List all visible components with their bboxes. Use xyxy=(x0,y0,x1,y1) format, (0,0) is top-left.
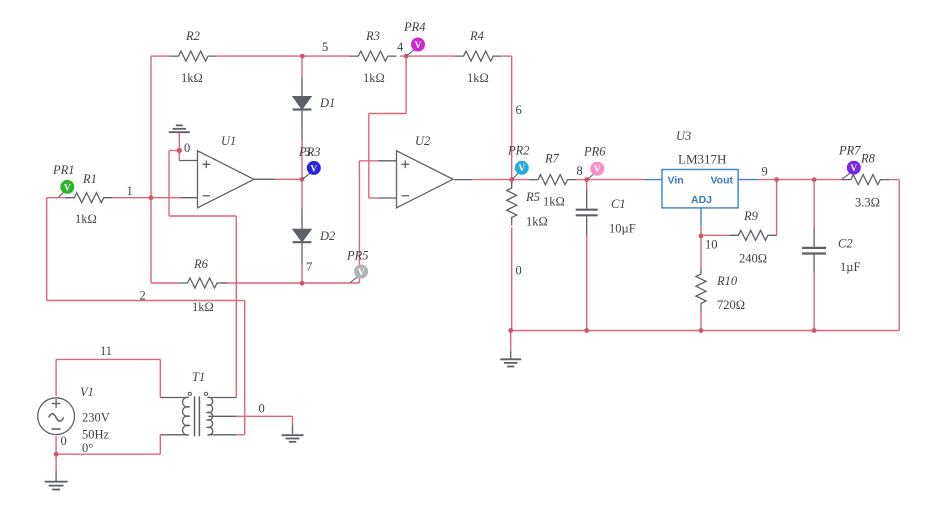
svg-text:D2: D2 xyxy=(319,229,335,243)
svg-text:PR7: PR7 xyxy=(838,144,861,158)
wire to R6 left xyxy=(151,282,179,284)
wire node 9 down to C2 xyxy=(813,180,815,227)
svg-text:PR2: PR2 xyxy=(507,144,530,158)
wire D1 cathode lead xyxy=(301,110,303,142)
svg-text:R4: R4 xyxy=(469,29,484,43)
op-amp U1 xyxy=(198,151,255,208)
svg-text:D1: D1 xyxy=(319,96,335,110)
probe PR1 green xyxy=(59,180,75,197)
svg-text:V1: V1 xyxy=(80,385,94,399)
diode D2 xyxy=(293,229,312,242)
svg-text:R7: R7 xyxy=(544,152,560,166)
transformer T1 xyxy=(160,392,236,436)
wire node 5 top rail xyxy=(217,55,350,57)
svg-text:R9: R9 xyxy=(743,209,759,223)
svg-text:230V: 230V xyxy=(82,411,110,425)
wire D1 to PR3 node xyxy=(301,142,303,180)
wire left vertical node1/node2 branch xyxy=(150,56,152,283)
wire C1 to ground bus xyxy=(586,236,588,331)
node 5 junction xyxy=(300,54,305,59)
wire U2 non-inverting lead xyxy=(378,160,396,162)
wire U2 inverting lead xyxy=(378,197,396,199)
svg-text:1kΩ: 1kΩ xyxy=(543,195,565,209)
svg-text:0: 0 xyxy=(61,434,67,448)
wire R9 up to node 9 xyxy=(776,180,778,236)
node 1 junction xyxy=(149,195,154,200)
op-amp U2 xyxy=(397,151,454,208)
svg-text:R3: R3 xyxy=(365,29,380,43)
wire V1 minus to ground xyxy=(55,436,57,470)
svg-text:R10: R10 xyxy=(716,274,738,288)
wire node 4 rail to R4 xyxy=(400,55,455,57)
svg-text:1kΩ: 1kΩ xyxy=(526,215,548,229)
wire to R8 left xyxy=(814,179,842,181)
bus C2 junction xyxy=(812,328,817,333)
wire C2 bottom lead xyxy=(813,254,815,272)
node 0 junction at U1 xyxy=(177,148,182,153)
capacitor C2 xyxy=(802,248,826,254)
probe PR7 violet xyxy=(842,161,861,180)
wire ground bus xyxy=(511,330,900,332)
wire PR2 node to R7 xyxy=(512,179,529,181)
svg-text:ADJ: ADJ xyxy=(691,194,712,206)
svg-text:PR6: PR6 xyxy=(583,145,606,159)
wire PR2 node to R5 xyxy=(511,180,513,184)
wire down to primary top xyxy=(159,359,161,397)
wire R4 right to corner xyxy=(502,55,512,57)
wire D2 cathode lead xyxy=(301,242,303,264)
wire feedback down to secondary top xyxy=(235,216,237,398)
wire U1 non-inverting input lead xyxy=(179,160,197,162)
wire R2 left lead rail xyxy=(151,55,170,57)
wire D2 anode lead xyxy=(301,208,303,229)
svg-text:C2: C2 xyxy=(838,237,853,251)
svg-text:7: 7 xyxy=(306,260,312,274)
wire node 2 vertical to transformer xyxy=(244,301,246,435)
probe PR3 dark blue xyxy=(303,161,321,179)
wire left vertical to node 2 xyxy=(46,198,48,301)
AC source V1 xyxy=(38,398,75,435)
probe PR6 pink xyxy=(587,162,604,179)
svg-text:1kΩ: 1kΩ xyxy=(363,71,385,85)
wire PR1 input xyxy=(47,197,66,199)
node 10 junction xyxy=(699,234,704,239)
svg-text:U3: U3 xyxy=(676,129,691,143)
wire stub U2 minus xyxy=(369,197,378,199)
probe PR4 magenta xyxy=(407,38,425,56)
node 9 junction xyxy=(774,177,779,182)
svg-text:720Ω: 720Ω xyxy=(717,298,745,312)
resistor R3 xyxy=(349,51,396,61)
wire right vertical to bus xyxy=(898,180,900,331)
svg-text:R6: R6 xyxy=(193,257,209,271)
wire Vout to node 9 xyxy=(758,179,777,181)
resistor R6 xyxy=(179,278,226,288)
node 8 junction xyxy=(584,177,589,182)
svg-text:1kΩ: 1kΩ xyxy=(192,300,214,314)
wire feedback vertical left of U1 xyxy=(168,151,170,217)
svg-text:240Ω: 240Ω xyxy=(739,252,767,266)
wire R8 right corner xyxy=(889,179,899,181)
wire node 9 to C2 top xyxy=(777,179,815,181)
svg-text:1kΩ: 1kΩ xyxy=(181,71,203,85)
wire node 7 up to U2 plus xyxy=(358,161,360,283)
wire U1 output to PR3 node xyxy=(275,178,303,180)
wire node 8 down to C1 xyxy=(586,180,588,189)
svg-text:1kΩ: 1kΩ xyxy=(75,212,97,226)
resistor R5 xyxy=(507,182,517,226)
svg-text:LM317H: LM317H xyxy=(678,152,726,167)
wire to U2 plus xyxy=(359,160,378,162)
resistor R8 xyxy=(842,175,889,185)
resistor R7 xyxy=(529,175,576,185)
svg-text:10µF: 10µF xyxy=(609,222,636,236)
svg-text:V: V xyxy=(358,268,365,278)
svg-text:9: 9 xyxy=(762,165,768,179)
ground above U1 xyxy=(169,125,190,132)
wire U1 inverting input lead xyxy=(181,197,198,199)
svg-text:C1: C1 xyxy=(611,197,626,211)
wire bus ground stem xyxy=(510,331,512,351)
capacitor C1 xyxy=(576,210,598,216)
svg-text:R2: R2 xyxy=(185,29,200,43)
wire R7 to node 8 xyxy=(576,179,587,181)
wire centre tap ground stem xyxy=(292,416,294,425)
svg-text:1: 1 xyxy=(127,184,133,198)
wire D1 anode lead xyxy=(301,76,303,96)
svg-text:10: 10 xyxy=(705,238,718,252)
wire node 2 horizontal xyxy=(47,300,245,302)
svg-text:0: 0 xyxy=(184,141,190,155)
wire node 4 down xyxy=(405,56,407,113)
wire C2 top lead xyxy=(813,227,815,247)
wire node 0 to U1 plus xyxy=(178,151,180,161)
svg-text:Vin: Vin xyxy=(668,175,684,187)
svg-text:V: V xyxy=(518,164,525,174)
voltage regulator U3 LM317H xyxy=(662,170,738,208)
C2 top junction xyxy=(812,177,817,182)
svg-text:R1: R1 xyxy=(82,172,97,186)
wire V1 bottom horizontal xyxy=(56,453,160,455)
wire node 4 horizontal xyxy=(369,113,406,115)
bus C1 junction xyxy=(584,328,589,333)
svg-text:PR5: PR5 xyxy=(346,249,369,263)
svg-text:Vout: Vout xyxy=(710,175,733,187)
ground at bus xyxy=(500,351,521,367)
wire node 1 to U1 minus xyxy=(113,197,181,199)
ground below V1 xyxy=(45,470,68,489)
wire U3 Vout lead xyxy=(738,179,758,181)
wire node 10 down to R10 xyxy=(700,236,702,268)
wire PR3 node down to D2 xyxy=(301,179,303,208)
wire node 5 down to D1 xyxy=(301,56,303,76)
svg-text:U2: U2 xyxy=(415,134,430,148)
wire U3 Vin lead xyxy=(645,179,663,181)
wire U2 output to PR2 node xyxy=(472,179,512,181)
wire V1 plus stem xyxy=(55,359,57,396)
wire node 8 to U3 xyxy=(587,179,645,181)
node 7 junction xyxy=(300,281,305,286)
svg-text:T1: T1 xyxy=(192,370,205,384)
svg-text:U1: U1 xyxy=(221,134,236,148)
probe PR2 blue xyxy=(512,161,528,179)
wire ADJ to node 10 xyxy=(700,226,702,236)
resistor R10 xyxy=(696,268,706,312)
wire node 0 left stub xyxy=(169,150,179,152)
resistor R2 xyxy=(170,51,217,61)
wire up to primary bottom xyxy=(159,435,161,454)
svg-text:1kΩ: 1kΩ xyxy=(467,71,489,85)
svg-text:3.3Ω: 3.3Ω xyxy=(855,196,880,210)
wire secondary centre tap to ground xyxy=(236,415,293,417)
svg-text:2: 2 xyxy=(140,289,146,303)
bus left junction xyxy=(508,328,513,333)
probe PR5 grey xyxy=(350,265,368,283)
wire C1 bottom lead xyxy=(586,216,588,235)
svg-text:R8: R8 xyxy=(860,152,876,166)
wire D2 to node 7 xyxy=(301,264,303,284)
wire node 10 to R9 xyxy=(701,234,729,236)
svg-text:0: 0 xyxy=(516,264,522,278)
wire U1 output lead xyxy=(254,178,275,180)
svg-text:1µF: 1µF xyxy=(840,260,860,274)
bus R10 junction xyxy=(699,328,704,333)
svg-text:V: V xyxy=(310,164,317,174)
svg-text:V: V xyxy=(594,165,601,175)
PR3 output node junction xyxy=(300,177,305,182)
wire feedback horizontal under U1 xyxy=(169,215,236,217)
svg-text:6: 6 xyxy=(516,103,522,117)
wire R6 right lead xyxy=(221,282,229,284)
svg-text:V: V xyxy=(415,41,422,51)
svg-text:0°: 0° xyxy=(82,441,93,455)
V1 bottom junction xyxy=(54,452,59,457)
wire U2 output lead xyxy=(454,179,472,181)
node 4 junction xyxy=(404,54,409,59)
resistor R9 xyxy=(729,230,776,240)
svg-text:R5: R5 xyxy=(525,190,540,204)
svg-text:50Hz: 50Hz xyxy=(82,428,110,442)
svg-text:5: 5 xyxy=(322,40,328,54)
svg-text:PR1: PR1 xyxy=(52,163,75,177)
svg-text:11: 11 xyxy=(100,344,112,358)
svg-text:0: 0 xyxy=(259,402,265,416)
svg-text:V: V xyxy=(850,164,857,174)
resistor R4 xyxy=(455,51,502,61)
wire C1 top lead xyxy=(586,188,588,208)
wire node 6 vertical xyxy=(511,56,513,180)
wire node 7 horizontal xyxy=(228,282,359,284)
wire R10 to bus xyxy=(700,312,702,331)
svg-text:8: 8 xyxy=(577,164,583,178)
svg-text:4: 4 xyxy=(397,40,404,54)
wire node 11 horizontal xyxy=(56,358,160,360)
wire to secondary bottom xyxy=(236,434,245,436)
ground at T1 secondary centre tap xyxy=(282,425,304,442)
wire C2 to ground bus xyxy=(813,272,815,330)
PR2 node junction xyxy=(509,177,514,182)
svg-text:V: V xyxy=(64,183,71,193)
svg-text:PR4: PR4 xyxy=(403,20,426,34)
wire ground stem to node 0 xyxy=(178,133,180,151)
wire R5 bottom node 0 vertical xyxy=(511,227,513,330)
wire U3 ADJ lead xyxy=(700,208,702,226)
resistor R1 xyxy=(65,193,112,203)
wire down to U2 minus xyxy=(368,114,370,199)
diode D1 xyxy=(293,97,312,110)
svg-text:3: 3 xyxy=(305,145,311,159)
